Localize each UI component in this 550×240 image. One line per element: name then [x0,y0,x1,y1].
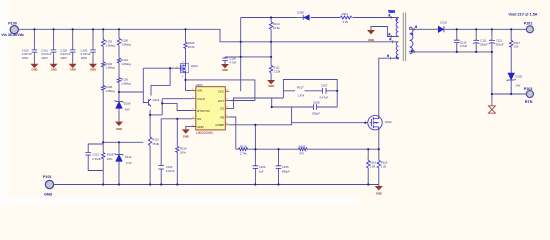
svg-text:36V: 36V [125,108,130,112]
svg-text:C104: C104 [166,165,173,169]
svg-text:D110: D110 [125,155,132,159]
svg-text:D102: D102 [515,75,522,79]
node dots on Vin rail [34,28,185,30]
svg-text:330pF: 330pF [312,112,320,116]
resistor R102 [101,40,104,47]
transistor Q102 [368,116,382,130]
svg-text:20%: 20% [107,157,113,161]
svg-text:1.0Meg: 1.0Meg [105,66,115,70]
wire IC GND pin to flag [186,127,196,130]
wire input cap C100 column [33,29,35,63]
svg-text:Vin 36-80Vdc: Vin 36-80Vdc [1,33,24,37]
wire mid-left rail [103,141,143,143]
zener D102 [507,73,516,81]
svg-text:1.0Meg: 1.0Meg [121,82,131,86]
wire left divider column R102 R104 R105 [102,29,104,142]
transistor Q100 [180,63,189,74]
svg-text:D100: D100 [297,10,304,14]
svg-text:1.15k: 1.15k [273,70,280,74]
wire R110 R111 column [270,18,272,81]
svg-text:0.33uF: 0.33uF [92,157,101,161]
svg-text:T100: T100 [388,10,395,14]
wire comp rail with R119 R118 [236,148,379,150]
wire divider mid tap [119,91,143,93]
ground flag bottom rail [375,186,383,196]
resistor R117 [510,41,513,48]
svg-text:470: 470 [299,151,304,155]
svg-text:100V: 100V [60,56,67,60]
svg-text:330uF: 330uF [480,43,488,47]
svg-text:1.00: 1.00 [381,164,387,168]
secondary winding [410,27,413,54]
svg-text:1.0Meg: 1.0Meg [121,62,131,66]
wire bottom ground rail [54,185,379,187]
resistor R108 [101,153,104,159]
svg-text:1.0Meg: 1.0Meg [105,89,115,93]
resistor R112 [341,16,352,19]
svg-text:C109: C109 [259,165,266,169]
resistor R100 [117,38,120,45]
svg-text:10.0k: 10.0k [188,45,195,49]
wire R115 column [378,149,380,184]
wire COMP riser and line to Q102 gate [229,123,368,150]
terminal P101 [43,175,54,196]
svg-text:COMP: COMP [215,123,224,127]
svg-text:P100: P100 [8,21,17,25]
wire comp network box [283,80,337,108]
svg-text:1.00: 1.00 [370,164,376,168]
node dots on clamp and bias rails [241,18,271,57]
svg-text:P103: P103 [524,87,533,91]
capacitor C101 [51,50,57,52]
svg-text:Vout 21V @ 1.5A: Vout 21V @ 1.5A [509,13,538,17]
svg-text:100V: 100V [22,56,29,60]
capacitor C102 [70,50,76,52]
transformer T100 [388,10,418,61]
node dots lower rails [103,125,379,149]
svg-text:0.25: 0.25 [343,20,349,24]
svg-text:R112: R112 [342,12,349,16]
wire clamp ground stub near transformer [371,27,391,37]
svg-text:100: 100 [514,45,519,49]
svg-text:P102: P102 [524,22,533,26]
resistor R116 [367,160,370,167]
svg-text:C105: C105 [282,165,289,169]
svg-text:680pF: 680pF [282,170,290,174]
ground flag near transformer primary [367,30,375,42]
capacitor C113 [85,152,91,155]
terminal P103 [524,87,534,104]
zener D110 [115,153,124,161]
resistor R105 [101,85,104,90]
wire FB riser [229,117,236,149]
capacitor C112 polarized [489,40,495,43]
wire secondary return rail [414,52,526,102]
svg-text:GND: GND [51,68,57,72]
svg-text:0.47uF: 0.47uF [320,95,329,99]
wire C110 column [456,29,458,52]
svg-text:RTN: RTN [525,100,533,104]
wire C113 R108 box [88,142,103,184]
power flag RTN bowtie [488,102,495,114]
component pin stubs (olive) [34,18,511,166]
svg-text:R118: R118 [299,144,306,148]
svg-text:GND: GND [90,68,96,72]
wire emitter to UVLO riser [150,99,192,115]
wire Q102 drain from bias winding [379,58,391,149]
resistor R104 [101,62,104,67]
ground flag under D106 [115,122,123,132]
svg-text:1.87k: 1.87k [297,93,304,97]
svg-text:4.7uF: 4.7uF [229,61,236,65]
ground flag IC GND pin [182,129,190,138]
svg-text:GND: GND [116,127,122,131]
capacitor C111 polarized [473,40,479,43]
resistor R119 [238,148,247,151]
node dots output section [365,29,511,122]
wire RT/SYNC connection [162,103,192,110]
svg-text:P101: P101 [43,175,52,179]
diode D101 [438,26,444,32]
svg-text:U200: U200 [196,83,203,87]
resistor R113 [148,137,151,146]
svg-text:C107: C107 [321,83,328,87]
svg-text:GND: GND [70,68,76,72]
svg-text:1.0Meg: 1.0Meg [105,43,115,47]
resistor R110 [269,22,272,29]
resistor R106 [184,42,187,48]
wire CS line [229,98,283,108]
wire right divider column R100 R101 R103 [118,29,120,121]
ground flag under C106 [221,64,229,72]
svg-text:VCC: VCC [218,90,224,94]
svg-text:0.01uF: 0.01uF [166,169,175,173]
svg-text:3.3V: 3.3V [126,161,132,165]
terminal P100 [1,21,24,37]
ground flag under C101 [50,64,58,72]
wire secondary output to D101 and P102 [414,28,526,30]
wire D110 column [118,142,120,184]
capacitor C103 [90,50,96,52]
ground flag under C100 [30,64,38,72]
terminal P102 [509,13,538,33]
svg-text:100V: 100V [81,56,88,60]
ground flag under C102 [69,64,77,72]
bias winding [396,42,398,59]
pin ticks [391,16,415,60]
wire R117 D102 column [510,29,512,94]
capacitor C107 [322,88,326,94]
svg-text:76.8k: 76.8k [152,142,159,146]
resistor R101 [117,58,120,63]
capacitor C104 [158,166,164,169]
IC U200 LM5020 [192,83,230,135]
svg-text:GND: GND [222,68,228,72]
svg-text:100V: 100V [41,56,48,60]
capacitor C105 [276,166,282,169]
resistor R115 [377,160,380,167]
wire C108 branch [272,98,338,123]
wire R114 branch [176,119,178,185]
capacitor C100 [32,50,38,52]
svg-text:D101: D101 [440,21,447,25]
wire Vin rail from P100 to transformer bias pin [19,29,393,42]
svg-text:GND: GND [268,84,274,88]
svg-text:R108: R108 [107,152,114,156]
wire R116 column [367,149,369,184]
svg-text:UVLO: UVLO [197,97,206,101]
svg-text:24V: 24V [515,84,520,88]
wire Q101 emitter column with R113 to bottom rail [149,110,151,185]
svg-text:R107: R107 [297,85,304,89]
svg-text:1uF: 1uF [259,170,264,174]
capacitor C109 [253,166,259,169]
wire gate line from divider to Q100 gate [143,68,179,102]
capacitor C110 [454,40,460,42]
svg-text:2.74k: 2.74k [240,151,247,155]
wire bias node to C106 [225,57,271,64]
wire input cap C102 column [72,29,74,63]
svg-text:OUT: OUT [218,99,224,103]
diode D100 [303,15,309,20]
svg-text:C108: C108 [313,100,320,104]
resistor R103 [117,78,120,83]
svg-text:1.0Meg: 1.0Meg [121,42,131,46]
wire SS line [161,119,192,185]
core [403,13,405,62]
wire input cap C103 column [92,29,94,63]
wire C105 column [278,149,280,184]
svg-text:CS: CS [220,107,224,111]
polarity dots [396,19,398,21]
svg-text:D106: D106 [124,102,131,106]
svg-text:GND: GND [197,125,203,129]
svg-text:GND: GND [183,135,189,139]
svg-text:GND: GND [32,68,38,72]
resistor R114 [176,146,179,152]
transistor Q101 [147,99,151,107]
svg-text:GND: GND [376,192,382,196]
svg-text:RT/SYNC: RT/SYNC [197,109,210,113]
svg-text:20%: 20% [180,150,186,154]
wire input cap C101 column [53,29,55,63]
svg-text:GND: GND [368,38,374,42]
node dots middle section [119,68,337,119]
svg-text:R119: R119 [240,144,247,148]
svg-text:FB: FB [220,115,224,119]
wire C111 column [475,29,477,52]
node dots bottom rail [103,183,368,185]
wire Q100 source to VIN pin and OUT riser [186,74,255,101]
ground flag under R111 [267,80,275,88]
svg-text:SS: SS [197,117,201,121]
wire R106 column and Q100 drain [185,29,187,64]
resistor R111 [269,66,272,73]
zener D106 [115,100,124,108]
svg-text:16.5k: 16.5k [273,26,280,30]
svg-text:C113: C113 [92,152,99,156]
svg-text:LM5020MM: LM5020MM [196,131,213,135]
svg-text:Q101: Q101 [153,98,160,102]
svg-text:3.3uF: 3.3uF [460,44,467,48]
wire C109 column [254,149,256,184]
svg-text:330uF: 330uF [496,43,504,47]
svg-text:GND: GND [44,192,53,196]
wire Q101 collector riser [151,68,170,95]
svg-text:Q100: Q100 [191,64,198,68]
svg-text:VIN: VIN [197,89,202,93]
wire C112 column [491,29,493,52]
capacitor C106 [222,58,228,61]
capacitor C108 [313,104,316,110]
ground flag under C103 [89,64,97,72]
primary winding [396,18,398,36]
wire clamp node rail with VDD riser [241,18,392,92]
resistor R118 [299,148,308,151]
svg-text:Q102: Q102 [385,120,392,124]
